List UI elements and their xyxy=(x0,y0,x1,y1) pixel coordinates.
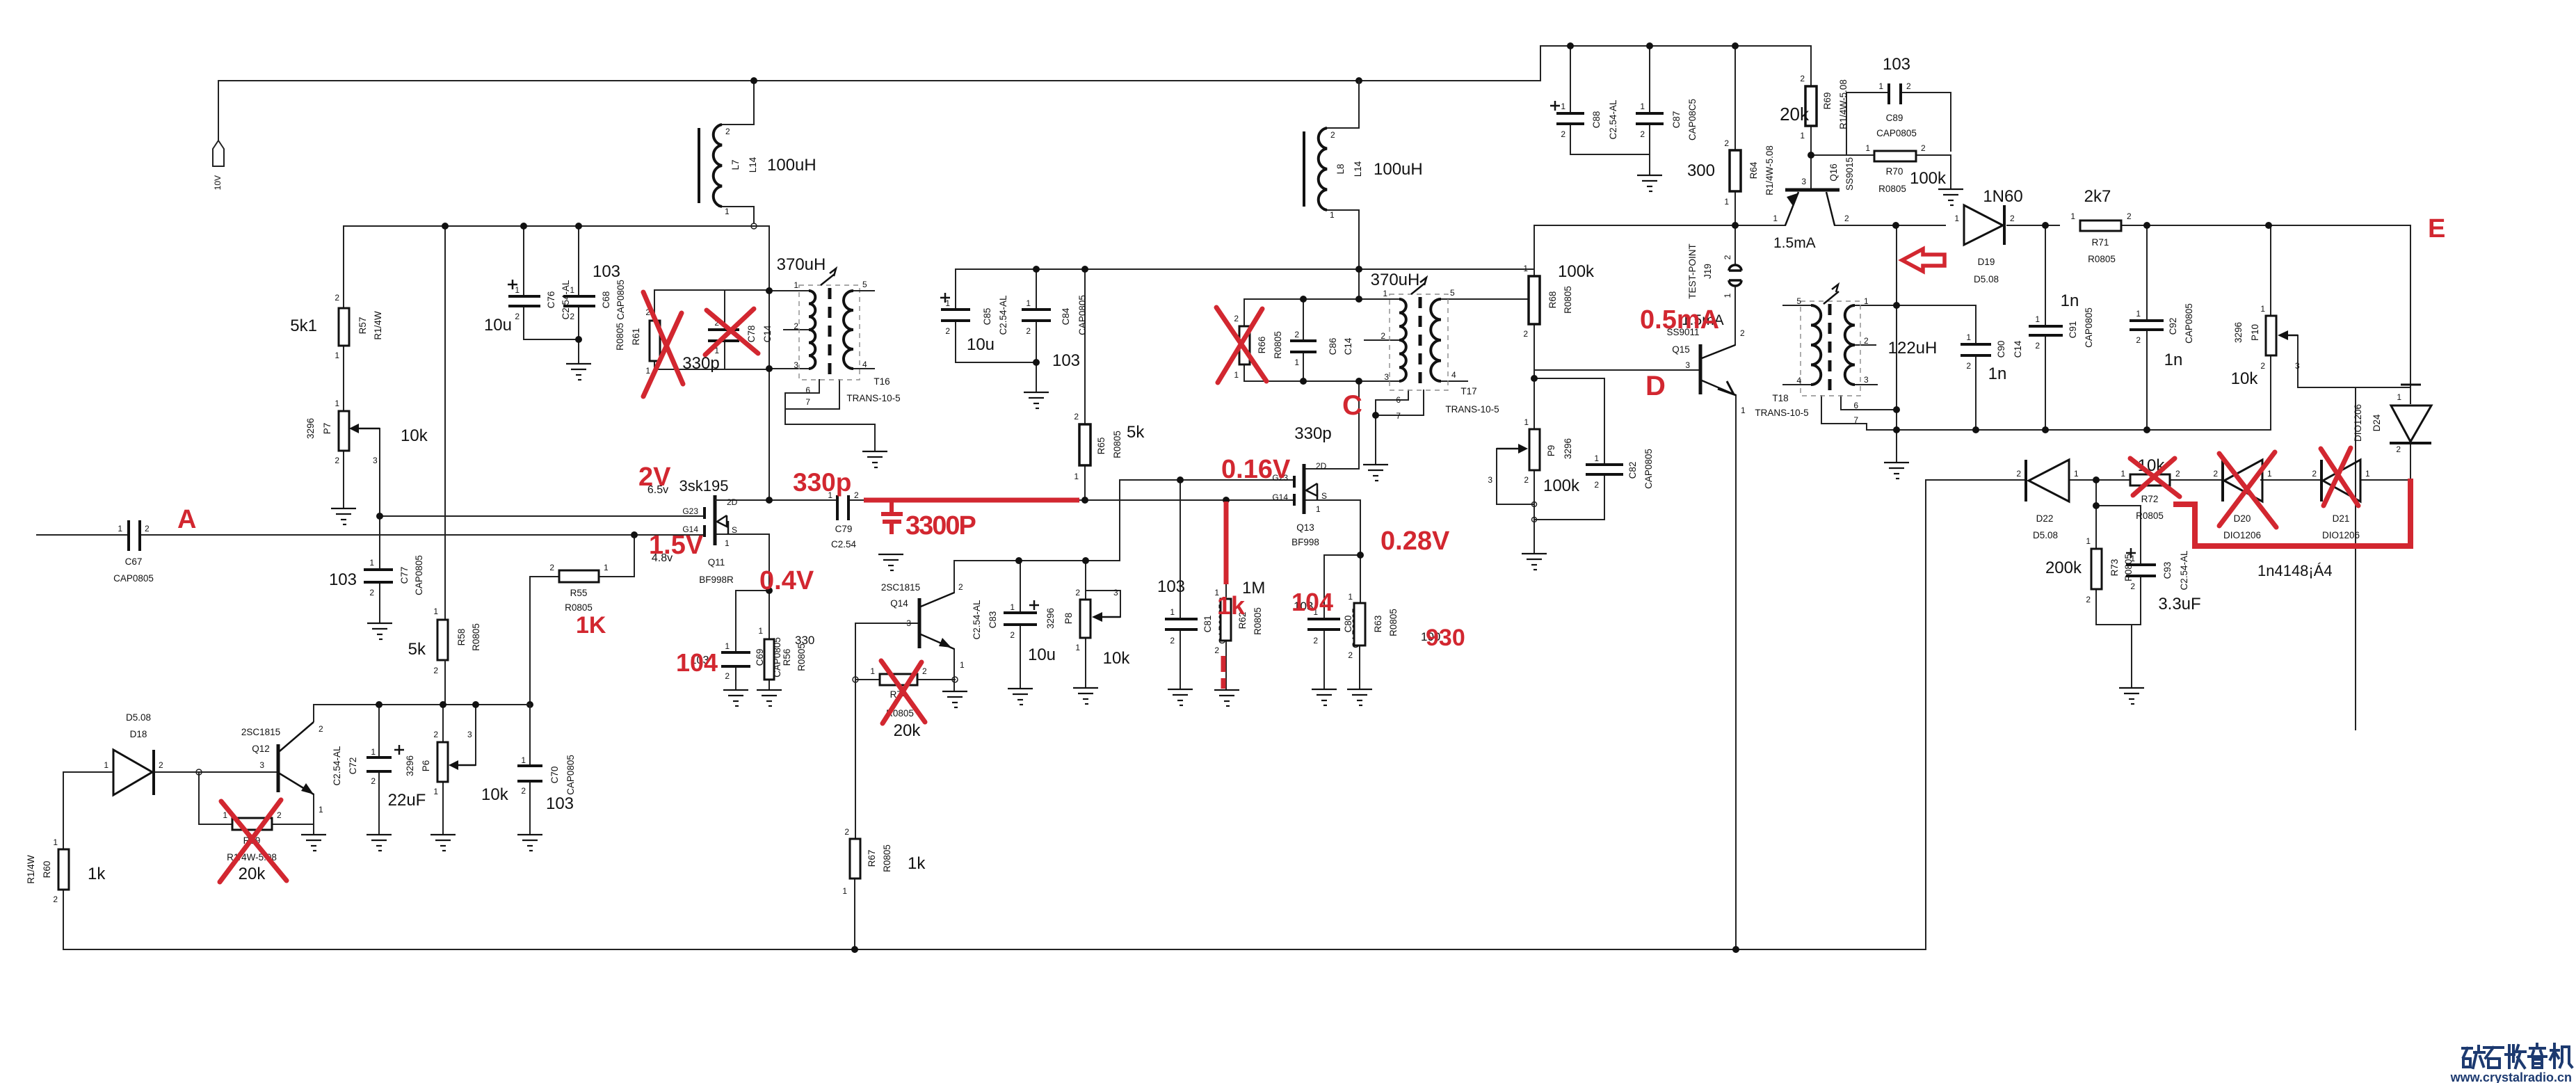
svg-text:2: 2 xyxy=(854,490,859,500)
wire C82 riser xyxy=(1604,378,1605,465)
wire Q13 source path xyxy=(1304,500,1360,555)
svg-text:CAP0805: CAP0805 xyxy=(1077,295,1088,335)
svg-text:2: 2 xyxy=(725,671,730,681)
wire R69 to Q16 base xyxy=(1810,126,1812,188)
svg-text:100k: 100k xyxy=(1910,169,1947,188)
wire T16 pin2 stub xyxy=(784,329,809,330)
ground T17 taps xyxy=(1363,465,1388,481)
svg-text:R1/4W-5.08: R1/4W-5.08 xyxy=(1764,145,1775,195)
svg-text:1: 1 xyxy=(2136,309,2141,319)
svg-text:2: 2 xyxy=(2127,211,2132,221)
svg-text:1: 1 xyxy=(1074,472,1079,481)
svg-text:D24: D24 xyxy=(2372,414,2382,431)
capacitor C85 xyxy=(940,293,1008,354)
wire R65 riser xyxy=(1084,269,1086,424)
resistor R71 xyxy=(2070,187,2132,264)
wire R58 bottom to row1013 xyxy=(444,660,446,705)
potentiometer P7 xyxy=(305,399,428,465)
svg-text:2: 2 xyxy=(2130,581,2135,591)
wire C78 top riser xyxy=(724,290,725,330)
svg-text:R0805: R0805 xyxy=(1563,286,1573,314)
svg-text:R0805: R0805 xyxy=(565,602,593,613)
wire C90 drop xyxy=(1975,305,1977,344)
resistor R61 xyxy=(615,307,660,376)
ground T16 taps xyxy=(862,451,887,467)
transistor Q12 2SC1815 xyxy=(241,722,323,815)
svg-text:1: 1 xyxy=(1865,143,1870,153)
svg-text:1: 1 xyxy=(1026,298,1031,308)
svg-text:22uF: 22uF xyxy=(388,791,426,810)
svg-text:C89: C89 xyxy=(1886,113,1903,123)
svg-text:R71: R71 xyxy=(2092,237,2109,248)
ground P7 xyxy=(331,508,356,524)
capacitor C82 xyxy=(1586,449,1654,490)
svg-text:SS9015: SS9015 xyxy=(1844,157,1855,191)
svg-text:D22: D22 xyxy=(2036,513,2054,524)
ground P6 xyxy=(430,835,456,851)
wire Q15 base xyxy=(1534,369,1700,371)
svg-text:5: 5 xyxy=(1796,296,1801,306)
wire R70 right lead xyxy=(1916,154,1951,156)
svg-text:TEST-POINT: TEST-POINT xyxy=(1687,243,1698,299)
wire supply rail2 y=387 xyxy=(956,268,1534,270)
wire T17 pin4 stub xyxy=(1441,380,1467,382)
svg-text:G14: G14 xyxy=(1272,492,1288,502)
svg-text:R0805: R0805 xyxy=(2136,511,2164,521)
svg-text:3.3uF: 3.3uF xyxy=(2158,595,2200,613)
svg-text:R0805: R0805 xyxy=(1253,607,1263,635)
junction dots row1013 and Q14 xyxy=(376,557,1089,953)
svg-text:C2.54-AL: C2.54-AL xyxy=(998,295,1008,335)
svg-text:1: 1 xyxy=(794,280,798,290)
svg-text:1: 1 xyxy=(1523,264,1528,273)
svg-text:1: 1 xyxy=(870,666,875,676)
ground Q12 emitter xyxy=(301,835,326,851)
svg-text:103: 103 xyxy=(1883,55,1910,74)
resistor R60 xyxy=(26,837,106,904)
wire C69 riser xyxy=(735,591,736,652)
svg-text:7: 7 xyxy=(1853,415,1858,425)
ground R63 xyxy=(1347,689,1372,705)
svg-text:R61: R61 xyxy=(631,328,641,346)
svg-text:5k: 5k xyxy=(1127,423,1145,442)
wire T16 tap7 xyxy=(785,380,839,409)
svg-text:1k: 1k xyxy=(88,865,106,883)
wire T18 tap6 xyxy=(1841,396,1897,410)
svg-text:370uH: 370uH xyxy=(1371,271,1420,289)
potentiometer P8 xyxy=(1045,588,1130,668)
svg-text:R1/4W: R1/4W xyxy=(26,855,36,884)
red modification path right xyxy=(2173,479,2410,546)
svg-text:1: 1 xyxy=(1234,370,1239,380)
node circle Q14 emitter xyxy=(952,677,958,682)
ground C80 xyxy=(1312,689,1337,705)
wire R70 ground stem xyxy=(1950,155,1951,188)
svg-text:0.16V: 0.16V xyxy=(1221,455,1291,484)
transistor Q14 2SC1815 xyxy=(881,582,965,670)
wire bottom long rail xyxy=(63,949,1926,950)
svg-text:2: 2 xyxy=(2213,469,2218,479)
svg-text:Q15: Q15 xyxy=(1672,344,1690,355)
svg-text:A: A xyxy=(177,505,196,534)
svg-text:CAP0805: CAP0805 xyxy=(2084,307,2094,348)
wire C88 riser xyxy=(1570,46,1571,113)
mosfet Q11 3sk195 xyxy=(647,477,738,585)
svg-text:2: 2 xyxy=(521,786,526,796)
svg-text:1n4148¡Á4: 1n4148¡Á4 xyxy=(2257,562,2333,579)
wire D18 to Q12 base xyxy=(154,771,277,773)
svg-text:P7: P7 xyxy=(322,423,332,435)
svg-text:4: 4 xyxy=(1796,376,1801,385)
svg-text:2V: 2V xyxy=(638,463,671,492)
svg-text:1N60: 1N60 xyxy=(1983,187,2022,206)
wire 10V stem xyxy=(218,81,219,140)
svg-text:R72: R72 xyxy=(2141,494,2159,504)
svg-text:100uH: 100uH xyxy=(1374,160,1423,179)
svg-text:R0805: R0805 xyxy=(471,623,481,651)
wire R58 long riser xyxy=(444,226,446,620)
svg-text:T16: T16 xyxy=(874,376,889,387)
svg-text:BF998R: BF998R xyxy=(699,575,734,585)
svg-text:3296: 3296 xyxy=(405,755,415,776)
svg-text:1: 1 xyxy=(725,538,730,548)
svg-text:103: 103 xyxy=(1052,351,1080,370)
capacitor C76 xyxy=(484,280,571,335)
wire P9 riser xyxy=(1533,378,1535,429)
wire L7 pin1 xyxy=(719,207,754,223)
capacitor C78 xyxy=(682,318,773,373)
wire C84 bottom xyxy=(1036,321,1037,391)
wire C82 bottom xyxy=(1534,474,1604,520)
svg-text:D5.08: D5.08 xyxy=(1974,274,1999,284)
capacitor C84 xyxy=(1022,295,1088,370)
svg-text:2: 2 xyxy=(1234,314,1239,323)
wire R72 to D20 xyxy=(2170,479,2223,481)
svg-text:1: 1 xyxy=(2267,469,2272,479)
svg-text:Q12: Q12 xyxy=(252,744,270,754)
potentiometer P6 xyxy=(405,730,509,804)
diode D18 xyxy=(104,712,163,795)
svg-text:2: 2 xyxy=(1348,650,1353,660)
svg-text:2: 2 xyxy=(433,666,438,675)
wire C70 riser xyxy=(529,705,531,766)
ground R56 xyxy=(757,690,782,706)
wire C93 bottom xyxy=(2140,576,2141,625)
svg-text:1: 1 xyxy=(369,558,374,568)
svg-text:1: 1 xyxy=(1864,296,1869,306)
wire top bus 10V y=116 xyxy=(218,80,1540,81)
ground C68 xyxy=(566,364,591,380)
svg-text:D18: D18 xyxy=(130,729,147,739)
wire C68 bottom to ground xyxy=(578,306,579,362)
svg-text:D5.08: D5.08 xyxy=(126,712,151,723)
svg-text:Q14: Q14 xyxy=(890,598,908,609)
svg-text:C83: C83 xyxy=(988,611,998,629)
wire C92 riser xyxy=(2146,225,2148,321)
wire T17 tap drop to ground xyxy=(1375,400,1376,463)
svg-text:1: 1 xyxy=(104,760,108,770)
svg-text:P9: P9 xyxy=(1546,445,1556,457)
svg-text:0.28V: 0.28V xyxy=(1380,527,1450,556)
resistor R74 crossed xyxy=(870,666,927,740)
svg-text:2: 2 xyxy=(1524,475,1529,485)
svg-text:2: 2 xyxy=(2175,469,2180,479)
svg-text:2: 2 xyxy=(277,810,282,820)
svg-text:C14: C14 xyxy=(762,325,773,342)
wire R59 right to emitter xyxy=(272,824,314,825)
svg-text:2: 2 xyxy=(515,312,520,321)
svg-text:1: 1 xyxy=(1594,454,1599,463)
capacitor C67 xyxy=(113,520,154,584)
svg-text:D: D xyxy=(1645,371,1666,401)
red X over R66 xyxy=(1216,307,1266,383)
svg-text:330p: 330p xyxy=(793,468,851,497)
inductor L7 xyxy=(699,125,816,216)
svg-text:2: 2 xyxy=(1214,645,1219,655)
svg-text:1: 1 xyxy=(1170,607,1175,617)
svg-text:R69: R69 xyxy=(1822,93,1833,110)
svg-text:103: 103 xyxy=(546,794,574,813)
svg-text:1: 1 xyxy=(1773,214,1778,223)
svg-text:1: 1 xyxy=(725,641,730,651)
svg-text:1: 1 xyxy=(335,399,339,408)
wire C87 riser xyxy=(1649,46,1650,113)
wire C86 top riser xyxy=(1303,299,1304,341)
red annotations xyxy=(177,214,2445,882)
wire P10 bottom xyxy=(2270,355,2271,430)
resistor R58 xyxy=(408,607,481,675)
wire R74 left lead xyxy=(855,679,880,680)
svg-text:6: 6 xyxy=(1396,395,1401,405)
ground R62 xyxy=(1214,690,1239,706)
mosfet Q13 BF998 xyxy=(1272,424,1331,547)
svg-text:10u: 10u xyxy=(1028,645,1056,664)
wire P10 wiper link xyxy=(2298,335,2356,387)
svg-text:1: 1 xyxy=(118,524,122,534)
wire R69 drop from bus xyxy=(1810,46,1812,86)
svg-text:P8: P8 xyxy=(1063,613,1074,625)
wire R61 top riser xyxy=(654,290,655,321)
wire R57 to P7 xyxy=(343,346,344,411)
svg-text:T18: T18 xyxy=(1772,393,1788,403)
wire C81 bottom xyxy=(1180,629,1181,688)
wire D18 left lead xyxy=(63,772,113,849)
red X over R61 xyxy=(643,292,683,396)
wire G23 corner drop xyxy=(1119,480,1120,561)
junction dots stage2 xyxy=(1033,266,1379,559)
resistor R59 crossed xyxy=(223,810,282,883)
svg-text:3: 3 xyxy=(1113,588,1118,597)
svg-text:DIO1206: DIO1206 xyxy=(2223,530,2261,540)
resistor R73 xyxy=(2045,536,2134,604)
wire L7 pin2 xyxy=(722,81,754,125)
wire upper bus y=66 xyxy=(1540,45,1811,47)
svg-text:CAP0805: CAP0805 xyxy=(615,280,626,320)
ground T18 taps xyxy=(1884,463,1909,479)
wire C72 riser xyxy=(378,705,380,757)
junction dots right part xyxy=(1531,42,2272,953)
svg-text:CAP0805: CAP0805 xyxy=(1876,128,1917,138)
svg-text:6: 6 xyxy=(1853,401,1858,410)
svg-text:L7: L7 xyxy=(730,159,741,170)
svg-text:2: 2 xyxy=(1640,129,1645,139)
svg-text:2: 2 xyxy=(1800,74,1805,83)
wire P6 wiper riser xyxy=(475,705,476,765)
wire R55 right lead xyxy=(599,576,634,577)
svg-text:C14: C14 xyxy=(2013,340,2023,358)
svg-text:C92: C92 xyxy=(2168,318,2178,335)
svg-text:1: 1 xyxy=(945,298,950,308)
svg-text:CAP0805: CAP0805 xyxy=(414,555,424,595)
svg-text:5k: 5k xyxy=(408,640,426,659)
svg-text:C81: C81 xyxy=(1202,616,1213,633)
ground P8 xyxy=(1073,688,1098,704)
transistor Q16 SS9015 xyxy=(1773,157,1855,251)
wire R73 riser xyxy=(2095,480,2097,549)
resistor R64 xyxy=(1687,138,1775,207)
wire source node down to R63 xyxy=(1360,555,1361,603)
svg-text:20k: 20k xyxy=(239,865,266,883)
wire C70 bottom xyxy=(529,781,531,833)
svg-text:10V: 10V xyxy=(213,175,223,190)
svg-text:C91: C91 xyxy=(2068,321,2078,339)
resistor R56 xyxy=(758,626,814,680)
wire L8 pin1 xyxy=(1324,210,1359,269)
svg-text:1k: 1k xyxy=(1217,591,1246,620)
wire C76 bottom xyxy=(524,306,579,339)
logo char shou xyxy=(2506,1045,2525,1068)
ground C69 xyxy=(723,690,748,706)
wire D20 to D21 xyxy=(2261,479,2321,481)
wire C85 riser xyxy=(955,269,956,310)
svg-text:1: 1 xyxy=(1383,289,1387,298)
capacitor C87 xyxy=(1636,99,1698,141)
wire P9 ground stem xyxy=(1533,520,1535,552)
wire T16 vertical feed x=1106 xyxy=(768,226,770,500)
svg-text:R0805: R0805 xyxy=(2088,254,2116,264)
svg-text:C2.54-AL: C2.54-AL xyxy=(332,746,342,786)
svg-text:P6: P6 xyxy=(421,760,431,772)
wire Q14 emitter drop xyxy=(953,649,955,690)
svg-text:R73: R73 xyxy=(2109,559,2120,577)
svg-text:R0805: R0805 xyxy=(1112,431,1122,458)
transformer T16 xyxy=(777,255,901,407)
svg-text:1n: 1n xyxy=(2061,291,2079,310)
svg-text:1: 1 xyxy=(53,837,58,847)
svg-text:2: 2 xyxy=(1724,138,1729,148)
wire T17 tap7 xyxy=(1376,390,1424,415)
wire R66 bottom riser xyxy=(1243,364,1245,381)
svg-text:C: C xyxy=(1342,390,1362,421)
svg-text:2: 2 xyxy=(369,588,374,597)
svg-text:2: 2 xyxy=(1170,636,1175,645)
wire C91 bottom xyxy=(2045,335,2046,430)
wire base node down to R59 xyxy=(199,772,232,824)
wire P6 bottom xyxy=(442,782,444,833)
svg-text:930: 930 xyxy=(1426,625,1465,651)
resistor R62 xyxy=(1214,579,1265,655)
wire P9 wiper link xyxy=(1497,449,1533,504)
wire C83 bottom xyxy=(1020,625,1021,687)
wire R71 to E row xyxy=(2121,225,2410,226)
wire C81 riser xyxy=(1180,480,1181,619)
wire D22 to R72 xyxy=(2069,479,2130,481)
svg-text:1: 1 xyxy=(1800,131,1805,141)
wire R62 riser xyxy=(1225,500,1227,599)
svg-text:R1/4W-5.08: R1/4W-5.08 xyxy=(1838,79,1849,129)
svg-text:10k: 10k xyxy=(401,426,428,445)
wire R55 left riser down xyxy=(529,577,531,705)
capacitor C92 xyxy=(2130,303,2194,369)
svg-text:R1/4W: R1/4W xyxy=(373,311,383,340)
wire R73 C93 top link xyxy=(2096,505,2141,506)
wire C83 riser xyxy=(1020,561,1021,613)
capacitor C81 xyxy=(1157,577,1227,645)
svg-text:2: 2 xyxy=(433,730,438,739)
svg-text:1: 1 xyxy=(1330,210,1335,220)
svg-text:C90: C90 xyxy=(1996,341,2006,358)
svg-text:2: 2 xyxy=(549,563,554,572)
svg-text:1: 1 xyxy=(2074,469,2079,479)
wire supply rail y=325 left stage xyxy=(344,225,769,227)
wire C78 bottom riser xyxy=(724,341,725,369)
svg-text:2: 2 xyxy=(922,666,927,676)
wire Q12 emitter drop xyxy=(313,794,314,833)
wire A input row xyxy=(37,534,129,536)
svg-text:1: 1 xyxy=(1724,197,1729,207)
svg-text:10k: 10k xyxy=(1103,649,1131,668)
svg-text:C87: C87 xyxy=(1671,111,1682,129)
svg-text:R56: R56 xyxy=(782,649,792,666)
svg-text:10u: 10u xyxy=(967,335,995,354)
svg-text:1: 1 xyxy=(2070,211,2075,221)
svg-text:1: 1 xyxy=(725,207,730,216)
wire G23 row P7 to Q11 xyxy=(380,515,705,517)
wire C90 bottom xyxy=(1975,355,1977,430)
logo char ji xyxy=(2550,1044,2572,1068)
svg-text:L14: L14 xyxy=(748,157,758,173)
wire T18 pin5 stub xyxy=(1783,305,1811,306)
red X over D21 xyxy=(2321,448,2358,506)
svg-text:C72: C72 xyxy=(348,757,358,775)
svg-text:2: 2 xyxy=(725,127,730,136)
svg-text:1: 1 xyxy=(960,660,965,670)
svg-text:1: 1 xyxy=(2086,536,2091,546)
svg-text:CAP0805: CAP0805 xyxy=(565,755,576,795)
capacitor C88 xyxy=(1550,99,1618,140)
wire T17 top row xyxy=(1244,298,1399,300)
svg-text:R60: R60 xyxy=(42,861,52,879)
capacitor C83 xyxy=(972,600,1056,664)
svg-text:122uH: 122uH xyxy=(1888,339,1938,358)
svg-text:C14: C14 xyxy=(1343,337,1353,355)
wire D24 bottom stub xyxy=(2410,443,2411,480)
svg-text:R66: R66 xyxy=(1257,337,1267,354)
red vertical over R62 branch xyxy=(1224,502,1229,584)
svg-text:C68: C68 xyxy=(601,291,611,309)
svg-text:C67: C67 xyxy=(125,556,143,567)
wire L8 pin2 xyxy=(1327,81,1359,128)
node P9 wiper join xyxy=(1532,502,1537,507)
resistor R57 xyxy=(290,293,383,360)
svg-text:103: 103 xyxy=(1157,577,1185,596)
svg-text:L8: L8 xyxy=(1335,163,1346,174)
wire R61 C78 top link xyxy=(654,289,769,291)
capacitor C86 xyxy=(1290,330,1353,367)
svg-text:2: 2 xyxy=(844,827,849,837)
svg-text:1: 1 xyxy=(515,285,520,295)
ground P9 xyxy=(1522,554,1547,570)
